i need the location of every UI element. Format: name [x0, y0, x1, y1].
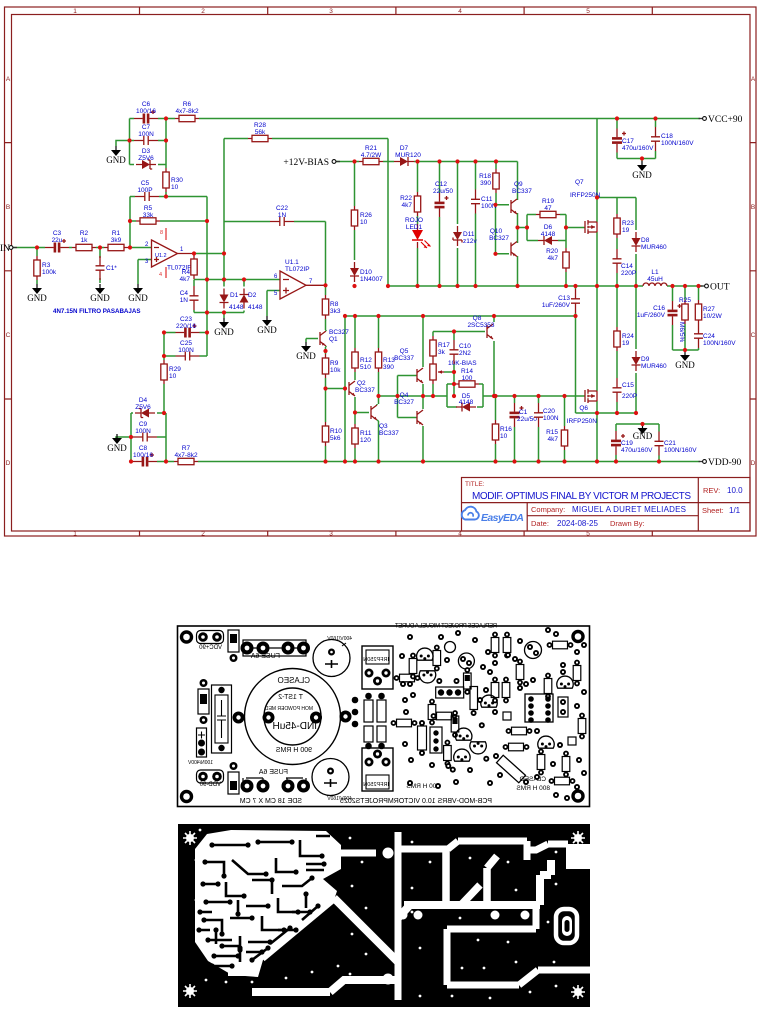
- svg-text:4k7: 4k7: [402, 202, 413, 209]
- svg-text:R30: R30: [171, 177, 183, 184]
- svg-text:IND-45uH: IND-45uH: [273, 721, 317, 732]
- PCB toroid L1: [245, 669, 341, 765]
- wire long row y396: [494, 395, 585, 397]
- svg-text:D8: D8: [641, 237, 650, 244]
- copper black traces in white region: [199, 836, 330, 966]
- svg-text:100N/400V: 100N/400V: [187, 760, 213, 766]
- resistor R22: [400, 192, 421, 216]
- svg-text:C14: C14: [621, 263, 633, 270]
- resistor R15: [546, 426, 568, 450]
- resistor R19: [536, 198, 560, 218]
- svg-text:22u: 22u: [52, 237, 63, 244]
- svg-text:GND: GND: [27, 293, 47, 303]
- svg-text:GND: GND: [128, 293, 148, 303]
- svg-text:C18: C18: [661, 133, 673, 140]
- svg-text:C17: C17: [622, 138, 634, 145]
- frame inner border: [12, 15, 751, 532]
- PCB left connector top: [197, 631, 224, 644]
- PCB big cap bottom: [312, 759, 349, 796]
- wire D11 column: [457, 162, 459, 287]
- svg-text:BC327: BC327: [489, 235, 509, 242]
- resistor R9: [322, 354, 341, 378]
- svg-text:D1: D1: [230, 292, 239, 299]
- PCB copper layer base: [178, 824, 590, 1007]
- terminal OUT: [701, 283, 730, 293]
- terminal VCC+90: [699, 115, 743, 125]
- svg-text:R20: R20: [546, 248, 558, 255]
- svg-text:R9: R9: [330, 360, 339, 367]
- svg-text:Q5: Q5: [400, 348, 409, 355]
- svg-text:100N/160V: 100N/160V: [703, 340, 736, 347]
- resistor R8: [322, 295, 341, 319]
- wire C1 col: [514, 396, 516, 462]
- wire D4/C9/C8 network: [131, 413, 166, 462]
- wire R4-C4 column: [193, 280, 195, 313]
- svg-text:2: 2: [201, 531, 205, 538]
- svg-text:C20: C20: [543, 408, 555, 415]
- svg-text:10k: 10k: [330, 367, 341, 374]
- svg-text:100N: 100N: [178, 347, 194, 354]
- copper channel bottom left: [228, 898, 400, 992]
- ground OUT network: [675, 351, 695, 370]
- svg-text:R24: R24: [622, 333, 634, 340]
- svg-text:T 1ST-2: T 1ST-2: [278, 694, 303, 701]
- svg-text:Q7: Q7: [575, 179, 584, 186]
- ground under R3: [27, 284, 47, 303]
- EasyEDA logo: [462, 507, 524, 524]
- svg-text:ROJO: ROJO: [405, 217, 423, 224]
- svg-text:100/16: 100/16: [133, 452, 153, 459]
- frame column ticks top: [140, 7, 653, 15]
- capacitor C5: [135, 180, 159, 201]
- copper white central region: [195, 830, 341, 977]
- frame outer border: [5, 7, 757, 536]
- svg-text:Q6: Q6: [579, 405, 588, 412]
- svg-text:CLASEO: CLASEO: [278, 676, 310, 685]
- copper channel row C: [447, 905, 590, 985]
- svg-text:100N/160V: 100N/160V: [664, 447, 697, 454]
- capacitor C17: [612, 129, 654, 153]
- frame column labels bottom: [73, 531, 590, 538]
- resistor R16: [492, 420, 512, 444]
- svg-text:C6: C6: [142, 101, 151, 108]
- wire R3 top stub: [36, 248, 38, 257]
- resistor R7: [174, 445, 198, 465]
- resistor R6: [175, 101, 199, 122]
- svg-text:+12V-BIAS: +12V-BIAS: [283, 158, 329, 168]
- svg-text:1uF/260V: 1uF/260V: [542, 302, 571, 309]
- svg-text:2: 2: [201, 8, 205, 15]
- ground pin3 U1.2: [128, 284, 148, 303]
- wire C5/R5 right column to node: [159, 197, 207, 357]
- svg-text:1N: 1N: [278, 212, 287, 219]
- resistor R30: [163, 168, 184, 192]
- wire C5/R5 feedback left column: [130, 197, 136, 248]
- resistor R20: [546, 248, 569, 272]
- wire C20 col: [538, 396, 540, 462]
- svg-text:1uF/260V: 1uF/260V: [637, 312, 666, 319]
- svg-text:MUR460: MUR460: [641, 244, 667, 251]
- diode D9: [632, 351, 668, 371]
- svg-text:Q10: Q10: [490, 228, 503, 235]
- diode D11: [453, 226, 477, 246]
- mosfet Q6: [567, 389, 598, 425]
- ground under C1: [90, 284, 110, 303]
- svg-text:R27: R27: [703, 306, 715, 313]
- resistor R3: [34, 256, 57, 280]
- copper channel vertical T: [446, 849, 497, 905]
- svg-text:4N7.15N FILTRO PASABAJAS: 4N7.15N FILTRO PASABAJAS: [53, 308, 140, 315]
- svg-text:2024-08-25: 2024-08-25: [557, 519, 598, 528]
- svg-text:B: B: [6, 204, 10, 211]
- svg-text:5: 5: [586, 8, 590, 15]
- wire Q7 drain column: [597, 119, 636, 287]
- svg-text:19: 19: [622, 340, 630, 347]
- svg-text:1/1: 1/1: [729, 506, 741, 515]
- svg-text:R8: R8: [330, 301, 339, 308]
- wire C6-C7-D3 right column with R30: [158, 119, 166, 197]
- svg-text:100N: 100N: [135, 428, 151, 435]
- svg-text:BC337: BC337: [394, 355, 414, 362]
- svg-text:C15: C15: [622, 382, 634, 389]
- svg-text:D: D: [6, 460, 11, 467]
- wire C22 row: [224, 139, 326, 222]
- capacitor C22: [270, 205, 294, 226]
- svg-text:IRFP250N: IRFP250N: [363, 657, 389, 663]
- svg-text:R18: R18: [479, 173, 491, 180]
- PCB left diode: [198, 679, 209, 724]
- wire Q8 base: [433, 331, 485, 333]
- resistor R24: [614, 327, 635, 351]
- resistor R29: [161, 360, 182, 384]
- transistor Q8: [467, 315, 494, 339]
- diode D6: [538, 224, 558, 245]
- diode D5: [456, 393, 476, 412]
- svg-text:C4: C4: [180, 290, 189, 297]
- svg-text:C22: C22: [276, 205, 288, 212]
- resistor R10: [322, 422, 342, 446]
- wire R18 column: [495, 162, 497, 205]
- copper vertical channel divider: [395, 832, 402, 1000]
- svg-text:L1: L1: [651, 269, 659, 276]
- copper corner starburst BL: [183, 984, 197, 998]
- capacitor C1*: [96, 256, 118, 280]
- svg-text:C13: C13: [558, 295, 570, 302]
- PCB component layout board: [178, 626, 590, 807]
- resistor R14: [455, 368, 479, 387]
- svg-text:510: 510: [360, 364, 371, 371]
- PCB fuse top: [243, 640, 306, 656]
- capacitor C8: [133, 445, 157, 467]
- wire R26-D10 column: [354, 162, 356, 287]
- svg-text:GND: GND: [107, 443, 127, 453]
- svg-text:4: 4: [458, 8, 462, 15]
- PCB small part bottom-mid-left: [228, 762, 239, 794]
- PCB fuse bottom: [243, 778, 306, 786]
- svg-text:Drawn By:: Drawn By:: [610, 519, 645, 528]
- svg-text:M6/5%: M6/5%: [678, 322, 685, 342]
- resistor R25: [678, 297, 691, 342]
- PCB mounting hole top-right: [573, 632, 583, 642]
- svg-text:C3: C3: [53, 230, 62, 237]
- wire R22-LED column: [417, 162, 419, 287]
- wire U1.2 output node: [178, 253, 195, 255]
- resistor R1: [104, 230, 128, 251]
- frame row labels right: [751, 76, 756, 467]
- resistor R21: [359, 145, 383, 165]
- resistor R11: [352, 424, 372, 448]
- capacitor C16: [637, 301, 682, 325]
- PCB TO-247 Q6: [362, 748, 393, 791]
- capacitor C12: [433, 181, 453, 217]
- svg-text:R25: R25: [679, 297, 691, 304]
- svg-text:GND: GND: [257, 325, 277, 335]
- resistor R27: [695, 300, 722, 324]
- svg-text:GND: GND: [296, 351, 316, 361]
- svg-text:8: 8: [160, 230, 163, 236]
- svg-text:C24: C24: [703, 333, 715, 340]
- svg-text:FUSE 6A: FUSE 6A: [258, 769, 288, 776]
- copper channel top row: [340, 841, 568, 860]
- capacitor C21: [655, 432, 698, 456]
- capacitor C18: [651, 127, 694, 151]
- transistor Q1: [320, 329, 349, 347]
- svg-text:R14: R14: [461, 368, 473, 375]
- svg-text:4k7: 4k7: [548, 436, 559, 443]
- capacitor C25: [176, 340, 200, 361]
- wire Q6 gate col: [575, 316, 577, 413]
- wire bias rail: [336, 161, 518, 163]
- PCB left connector bottom: [197, 770, 224, 783]
- svg-text:D3: D3: [142, 148, 151, 155]
- svg-text:BC337: BC337: [355, 387, 375, 394]
- PCB mounting hole top-left: [182, 632, 192, 642]
- svg-text:C5: C5: [141, 180, 150, 187]
- capacitor C20: [534, 403, 559, 427]
- svg-text:Sheet:: Sheet:: [702, 506, 724, 515]
- wire R12 col: [354, 316, 356, 380]
- wire Q6 drain/source: [596, 286, 598, 462]
- svg-text:2N2: 2N2: [459, 350, 471, 357]
- svg-text:GND: GND: [90, 293, 110, 303]
- capacitor C7: [134, 124, 158, 145]
- PCB TO-247 Q7: [362, 646, 393, 689]
- wire VCC+90 rail: [130, 118, 701, 120]
- copper via dots: [195, 829, 558, 1000]
- wire OUT RC to gnd: [673, 286, 699, 351]
- svg-text:100/16: 100/16: [136, 108, 156, 115]
- wire R17/trimmer col: [432, 332, 434, 397]
- svg-text:MUR460: MUR460: [641, 363, 667, 370]
- capacitor C10: [450, 340, 472, 364]
- svg-text:3k: 3k: [438, 349, 446, 356]
- diode D4: [135, 397, 155, 418]
- svg-text:Q2: Q2: [357, 380, 366, 387]
- svg-text:1: 1: [73, 531, 77, 538]
- capacitor C1: [510, 403, 538, 427]
- copper black pads in white region: [196, 839, 326, 968]
- svg-text:Q1: Q1: [329, 336, 338, 343]
- terminal IN: [0, 244, 17, 254]
- svg-text:REPLACES PROJECT-MIGUEL A DURE: REPLACES PROJECT-MIGUEL A DURET: [395, 624, 497, 630]
- svg-text:VDD-90: VDD-90: [708, 458, 741, 468]
- svg-text:IN: IN: [0, 244, 10, 254]
- svg-text:BC337: BC337: [512, 188, 532, 195]
- svg-text:120: 120: [360, 437, 371, 444]
- svg-text:R5: R5: [144, 205, 153, 212]
- svg-text:C25: C25: [180, 340, 192, 347]
- svg-text:R10: R10: [330, 428, 342, 435]
- svg-text:D9: D9: [641, 356, 650, 363]
- svg-text:R3: R3: [42, 262, 51, 269]
- svg-text:3: 3: [329, 531, 333, 538]
- svg-text:R17: R17: [438, 342, 450, 349]
- svg-text:R7: R7: [182, 445, 191, 452]
- copper channel notch top right: [566, 844, 590, 869]
- capacitor C15: [613, 378, 638, 402]
- wire R15 col: [564, 396, 566, 462]
- svg-text:IRFP250N: IRFP250N: [567, 418, 598, 425]
- resistor R23: [614, 214, 635, 238]
- svg-text:800 H RMS: 800 H RMS: [516, 785, 550, 792]
- wire C13 column: [575, 286, 577, 316]
- wire emitter row: [379, 395, 495, 397]
- capacitor C23: [176, 316, 200, 338]
- svg-text:GND: GND: [675, 360, 695, 370]
- svg-text:33k: 33k: [143, 212, 154, 219]
- frame row labels left: [6, 76, 11, 467]
- wire VDD-90 bottom rail: [131, 461, 700, 463]
- svg-text:2SC5353: 2SC5353: [467, 322, 494, 329]
- svg-text:R23: R23: [622, 220, 634, 227]
- svg-text:470u/160V: 470u/160V: [622, 145, 654, 152]
- resistor R18: [479, 169, 499, 193]
- ground low left: [107, 434, 127, 453]
- resistor R17: [430, 336, 451, 360]
- wire Q8 collector/emitter: [493, 316, 495, 396]
- svg-text:47: 47: [544, 205, 552, 212]
- svg-text:D4: D4: [139, 397, 148, 404]
- svg-text:100k: 100k: [42, 269, 57, 276]
- svg-text:GND: GND: [106, 155, 126, 165]
- copper hole ring: [311, 841, 322, 852]
- wire GND stub C7: [116, 141, 130, 147]
- mosfet Q7: [570, 179, 601, 234]
- transistor Q5: [394, 348, 423, 383]
- svg-text:R1: R1: [112, 230, 121, 237]
- resistor R5: [136, 205, 160, 224]
- transistor Q2: [349, 380, 375, 396]
- capacitor C11: [471, 190, 497, 214]
- svg-text:C1: C1: [519, 409, 528, 416]
- copper channel mid corridor: [398, 860, 551, 918]
- svg-text:D: D: [751, 460, 756, 467]
- title block box: [462, 478, 751, 532]
- diode D10: [350, 262, 383, 283]
- svg-text:IRFP250N: IRFP250N: [363, 782, 389, 788]
- diode D3: [136, 148, 156, 169]
- PCB mounting hole bottom-left: [182, 792, 192, 802]
- svg-text:470u/160V: 470u/160V: [621, 447, 653, 454]
- svg-text:C10: C10: [459, 343, 471, 350]
- svg-text:10/2W: 10/2W: [703, 313, 723, 320]
- svg-text:10: 10: [171, 184, 179, 191]
- wire pin7 output: [306, 284, 326, 286]
- wire input chain: [13, 247, 151, 249]
- transistor Q9: [511, 181, 532, 214]
- svg-text:Company:: Company:: [531, 505, 565, 514]
- svg-text:C16: C16: [653, 305, 665, 312]
- svg-text:220P: 220P: [622, 393, 637, 400]
- svg-text:C9: C9: [139, 421, 148, 428]
- svg-text:EasyEDA: EasyEDA: [481, 512, 524, 524]
- wire R3 bottom to GND: [36, 280, 38, 284]
- wire C12 column: [439, 162, 441, 287]
- svg-text:SDE 18 CM X 7 CM: SDE 18 CM X 7 CM: [240, 798, 302, 805]
- capacitor C4: [180, 286, 199, 310]
- svg-text:R22: R22: [400, 195, 412, 202]
- wire C23/C25 left col R29: [164, 333, 207, 414]
- svg-text:C: C: [751, 332, 756, 339]
- svg-text:4k7: 4k7: [180, 276, 191, 283]
- svg-text:390: 390: [383, 364, 394, 371]
- PCB small part top-mid-left: [228, 630, 239, 662]
- svg-text:TL072IP: TL072IP: [285, 266, 310, 273]
- svg-text:4x7-8k2: 4x7-8k2: [174, 452, 198, 459]
- svg-text:Z5V6: Z5V6: [138, 155, 154, 162]
- svg-text:10K-BIAS: 10K-BIAS: [448, 360, 477, 367]
- svg-text:MUR120: MUR120: [395, 152, 421, 159]
- wire Q1 base GND: [306, 339, 318, 343]
- ground between C19 C21: [633, 424, 653, 441]
- svg-text:R4: R4: [182, 269, 191, 276]
- svg-text:C7: C7: [142, 124, 151, 131]
- svg-text:Z5V6: Z5V6: [135, 404, 151, 411]
- led LED1: [405, 217, 431, 248]
- capacitor C19: [611, 431, 653, 455]
- wire left col x345: [345, 316, 347, 462]
- svg-text:C12: C12: [435, 181, 447, 188]
- wire pin5 to GND: [267, 291, 280, 317]
- svg-text:R26: R26: [360, 212, 372, 219]
- svg-text:1k: 1k: [81, 237, 89, 244]
- ground near C7: [106, 146, 126, 165]
- wire R19/D6 box: [527, 215, 585, 287]
- svg-text:C8: C8: [139, 445, 148, 452]
- svg-text:GND: GND: [214, 327, 234, 337]
- wire GND stub left low: [116, 437, 131, 439]
- copper corner starburst TR: [571, 831, 585, 845]
- resistor R13: [375, 348, 395, 372]
- svg-text:D10: D10: [360, 269, 372, 276]
- PCB right-half parts field: [391, 627, 587, 801]
- wire Q4 base: [398, 376, 418, 418]
- svg-text:100N: 100N: [138, 131, 154, 138]
- svg-text:Date:: Date:: [531, 519, 549, 528]
- svg-text:1: 1: [73, 8, 77, 15]
- wire Q2 links: [355, 397, 369, 462]
- wire Q9/Q10 column: [518, 162, 528, 287]
- svg-text:D2: D2: [248, 292, 257, 299]
- op-amp U1.1: [274, 259, 313, 299]
- svg-text:VDC+90: VDC+90: [198, 645, 222, 651]
- capacitor C6: [134, 101, 158, 124]
- wire C19/C21 gnd box: [616, 424, 659, 462]
- svg-text:R12: R12: [360, 357, 372, 364]
- svg-text:Q4: Q4: [400, 392, 409, 399]
- wire C1* column: [99, 248, 101, 284]
- terminal VDD-90: [699, 458, 742, 468]
